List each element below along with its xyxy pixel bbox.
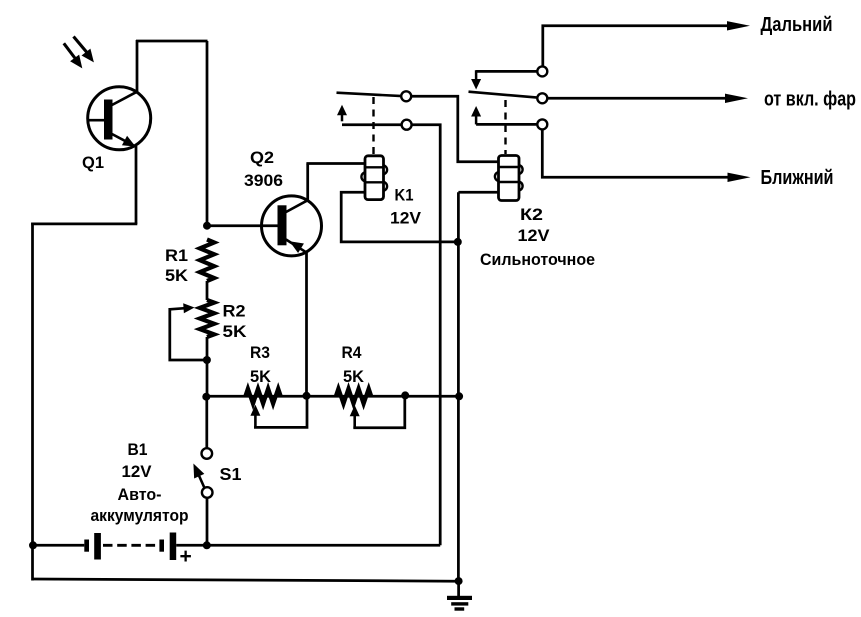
- transistor Q1: [88, 87, 151, 150]
- label Дальний: [761, 13, 833, 36]
- light arrow 2: [74, 37, 94, 63]
- label R3: [250, 343, 272, 386]
- wire R4 wiper bracket: [355, 396, 405, 428]
- wire Q2 collector: [306, 164, 365, 201]
- wire K1 top contact right: [411, 96, 498, 162]
- wiper arrow R4: [350, 405, 360, 428]
- svg-text:Ближний: Ближний: [761, 166, 834, 189]
- light arrow 1: [64, 43, 83, 68]
- svg-text:5K: 5K: [343, 367, 365, 386]
- svg-text:5K: 5K: [223, 322, 248, 341]
- switch K1 arm: [337, 93, 403, 96]
- resistor R3: [245, 389, 280, 404]
- label R1: [165, 246, 189, 285]
- resistor R1: [200, 240, 214, 282]
- label S1: [220, 464, 242, 484]
- svg-text:+: +: [180, 545, 192, 568]
- resistor R2: [200, 300, 214, 337]
- label Q2: [244, 148, 283, 190]
- label battery plus: [180, 545, 192, 568]
- wire K2 coil bottom to ground rail: [457, 192, 460, 581]
- svg-text:Q2: Q2: [250, 148, 274, 167]
- contact K1 top: [401, 91, 411, 101]
- wire top collector loop: [136, 40, 208, 226]
- svg-text:Сильноточное: Сильноточное: [480, 250, 595, 269]
- label R4: [342, 343, 365, 386]
- wire K1 bottom contact right: [412, 125, 441, 546]
- svg-text:12V: 12V: [122, 462, 153, 481]
- node rail R3R4: [303, 392, 311, 400]
- wire Q2 emitter: [305, 252, 308, 396]
- label R2: [223, 302, 248, 342]
- label Q1: [82, 153, 104, 172]
- svg-text:3906: 3906: [244, 171, 283, 190]
- svg-text:аккумулятор: аккумулятор: [91, 506, 189, 525]
- wire battery to S1 rail: [207, 544, 440, 547]
- wire S1 to battery node: [206, 498, 209, 547]
- svg-text:К2: К2: [520, 205, 543, 224]
- wire to от вкл. фар: [548, 94, 749, 103]
- svg-text:B1: B1: [128, 440, 148, 459]
- contact S1 bottom: [202, 487, 213, 498]
- node R2 bottom: [203, 356, 211, 364]
- resistor R4: [336, 389, 371, 404]
- svg-text:R2: R2: [223, 302, 246, 321]
- wire K2 coil bottom lead: [458, 191, 499, 194]
- svg-text:Q1: Q1: [82, 153, 104, 172]
- wire Q2 base: [207, 224, 278, 227]
- ground: [447, 581, 472, 611]
- node rail R4 right: [401, 391, 409, 399]
- wire rail to S1: [205, 397, 208, 449]
- svg-text:от вкл. фар: от вкл. фар: [764, 87, 856, 110]
- wiper arrow R2: [170, 303, 195, 313]
- wire K1 bottom contact left: [342, 123, 402, 126]
- wire R3 wiper bracket: [255, 397, 307, 427]
- svg-text:R4: R4: [342, 343, 362, 362]
- svg-text:12V: 12V: [390, 209, 422, 228]
- wire R2 wiper bracket: [170, 308, 207, 360]
- battery B1: [84, 533, 207, 561]
- wire K2 NC branch: [471, 70, 537, 89]
- wire to Ближний: [542, 130, 750, 182]
- label от вкл. фар: [764, 87, 856, 110]
- relay coil K1: [361, 156, 387, 200]
- node rail right end: [455, 392, 463, 400]
- wire R1-R2: [206, 281, 209, 300]
- label B1: [91, 440, 189, 525]
- wire R2 to rail: [206, 337, 209, 397]
- node base junction: [203, 222, 211, 230]
- label K1: [390, 186, 422, 228]
- svg-text:12V: 12V: [518, 226, 551, 245]
- arrow K2 armature: [471, 106, 481, 124]
- node battery plus: [203, 541, 211, 549]
- dashed link K2: [504, 100, 506, 154]
- node battery minus: [29, 541, 37, 549]
- contact K1 bottom: [402, 120, 412, 130]
- svg-text:K1: K1: [395, 186, 414, 205]
- node rail left: [202, 393, 210, 401]
- svg-text:Дальний: Дальний: [761, 13, 833, 36]
- label K2: [480, 205, 595, 269]
- contact S1 top: [202, 448, 213, 459]
- label Ближний: [761, 166, 834, 189]
- contact K2 top: [537, 66, 547, 76]
- switch K2 arm: [469, 92, 538, 98]
- svg-text:S1: S1: [220, 464, 242, 484]
- wire ground rail: [33, 579, 459, 581]
- svg-text:R3: R3: [250, 343, 270, 362]
- arrow K1 armature: [337, 105, 347, 122]
- contact K2 mid: [537, 93, 547, 103]
- relay coil K2: [495, 156, 523, 201]
- wire battery minus lead: [33, 544, 85, 547]
- node ground junction: [455, 577, 463, 585]
- wire Q1 emitter: [31, 146, 137, 581]
- wire K1 coil bottom: [341, 192, 458, 242]
- svg-text:5K: 5K: [250, 367, 272, 386]
- svg-text:5K: 5K: [165, 266, 189, 285]
- node K1K2 bottom junction: [454, 238, 462, 246]
- wiper arrow R3: [250, 405, 260, 428]
- wire to Дальний: [543, 21, 750, 66]
- contact K2 bottom: [537, 119, 547, 129]
- svg-text:Авто-: Авто-: [118, 485, 162, 504]
- wire rail: [206, 395, 459, 398]
- transistor Q2: [262, 196, 322, 256]
- wire K2 NO lead: [476, 123, 537, 126]
- svg-text:R1: R1: [165, 246, 188, 265]
- switch S1 arm: [193, 464, 204, 489]
- dashed link K1: [372, 97, 374, 155]
